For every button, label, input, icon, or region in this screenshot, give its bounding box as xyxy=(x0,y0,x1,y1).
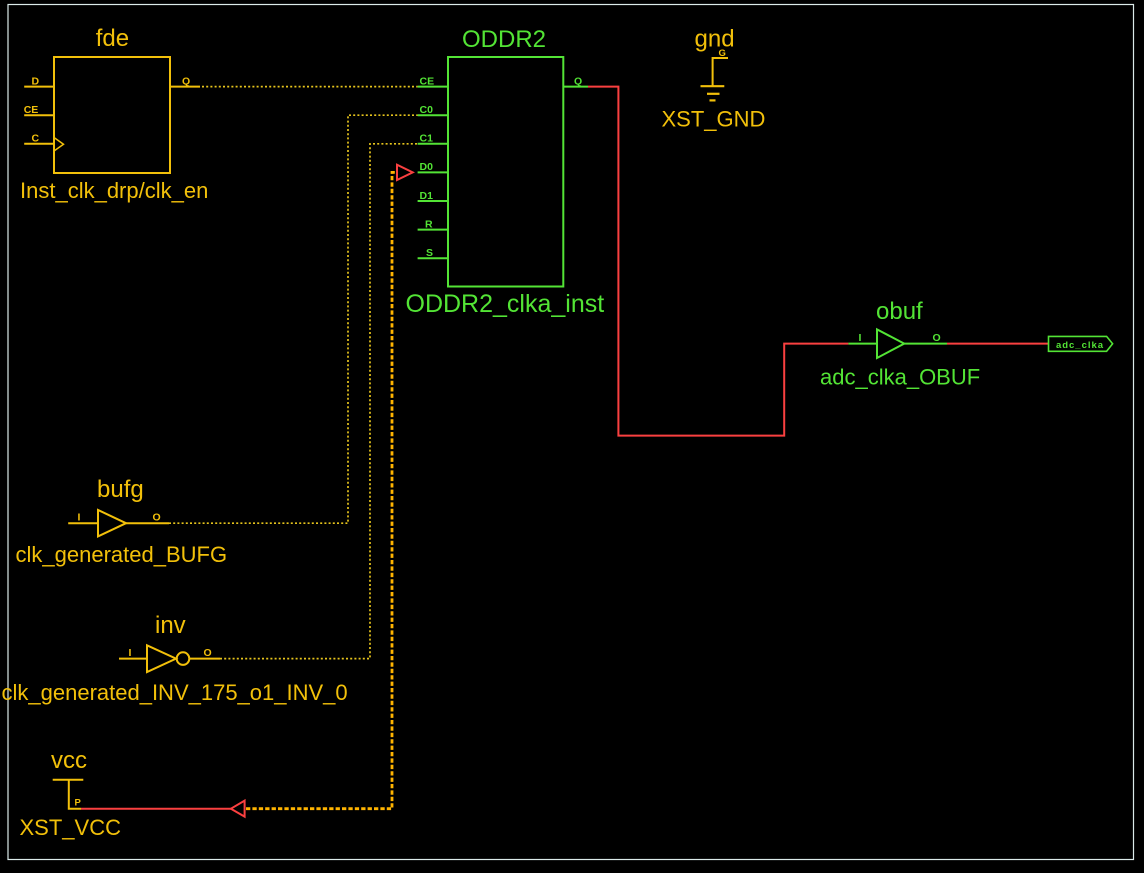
svg-text:I: I xyxy=(859,332,862,344)
fde pin C clock wedge xyxy=(54,138,64,152)
svg-text:inv: inv xyxy=(155,612,186,639)
svg-text:Q: Q xyxy=(574,76,582,88)
red open arrow (right-pointing) into ODDR2.D0 xyxy=(397,165,413,180)
inv pin O xyxy=(190,658,221,660)
ODDR2 pin R xyxy=(418,229,448,231)
svg-text:G: G xyxy=(719,48,726,59)
svg-text:I: I xyxy=(129,647,132,659)
vcc symbol xyxy=(53,779,84,781)
bufg buffer (clk_generated_BUFG) xyxy=(98,510,126,536)
svg-text:bufg: bufg xyxy=(97,476,144,503)
svg-text:P: P xyxy=(75,798,82,809)
svg-text:CE: CE xyxy=(420,76,435,88)
svg-text:CE: CE xyxy=(24,104,39,116)
ODDR2 pin D0 xyxy=(418,171,448,173)
svg-text:adc_clka: adc_clka xyxy=(1056,340,1104,351)
svg-text:O: O xyxy=(153,512,161,524)
ODDR2 pin Q xyxy=(563,86,588,88)
svg-text:ODDR2_clka_inst: ODDR2_clka_inst xyxy=(406,290,605,318)
ODDR2 pin C1 xyxy=(418,143,448,145)
bufg pin O xyxy=(126,522,169,524)
inv bubble xyxy=(177,652,190,665)
red wire net ODDR2.Q to obuf input xyxy=(588,87,848,436)
wire net fde.Q to ODDR2.CE (dotted) xyxy=(202,86,418,88)
wire net vcc to ODDR2.D0 (orange dashed) xyxy=(246,172,397,808)
inv pin I xyxy=(119,658,147,660)
svg-text:XST_VCC: XST_VCC xyxy=(20,815,122,840)
svg-text:R: R xyxy=(425,218,433,230)
obuf pin O xyxy=(904,343,947,345)
ODDR2 pin D1 xyxy=(418,200,448,202)
gnd symbol xyxy=(713,58,728,86)
red open arrow (left-pointing) at vcc net xyxy=(231,801,245,817)
ODDR2 pin C0 xyxy=(418,114,448,116)
fde pin Q xyxy=(170,86,200,88)
svg-text:D: D xyxy=(32,76,40,88)
ODDR2 pin CE xyxy=(418,86,448,88)
fde pin D xyxy=(24,86,54,88)
fde pin CE xyxy=(24,114,54,116)
red wire obuf output to port xyxy=(947,343,1049,345)
svg-text:C: C xyxy=(32,133,40,145)
svg-text:C1: C1 xyxy=(420,133,434,145)
svg-text:adc_clka_OBUF: adc_clka_OBUF xyxy=(820,365,980,390)
inv inverter (clk_generated_INV_175_o1_INV_0) xyxy=(147,645,176,672)
svg-text:I: I xyxy=(78,512,81,524)
svg-text:clk_generated_INV_175_o1_INV_0: clk_generated_INV_175_o1_INV_0 xyxy=(2,680,348,705)
flip-flop U fde (Inst_clk_drp/clk_en) xyxy=(54,57,170,173)
svg-text:Q: Q xyxy=(182,76,190,88)
svg-text:ODDR2: ODDR2 xyxy=(462,26,546,53)
svg-text:S: S xyxy=(426,247,433,259)
red wire from vcc pin P xyxy=(81,808,231,810)
svg-text:D0: D0 xyxy=(420,161,434,173)
svg-text:C0: C0 xyxy=(420,104,434,116)
svg-text:obuf: obuf xyxy=(876,298,923,325)
svg-text:gnd: gnd xyxy=(695,25,735,52)
wire net bufg.O to ODDR2.C0 (dotted) xyxy=(169,115,418,523)
wire net inv.O to ODDR2.C1 (dotted) xyxy=(220,144,418,659)
svg-text:O: O xyxy=(204,647,212,659)
svg-text:clk_generated_BUFG: clk_generated_BUFG xyxy=(16,542,228,567)
obuf pin I xyxy=(848,343,877,345)
output port flag adc_clka xyxy=(1049,336,1113,351)
ODDR2 component box xyxy=(448,57,563,287)
ODDR2 pin S xyxy=(418,257,448,259)
obuf buffer (adc_clka_OBUF) xyxy=(877,329,904,358)
svg-text:vcc: vcc xyxy=(51,747,87,774)
svg-text:fde: fde xyxy=(96,25,129,52)
svg-text:Inst_clk_drp/clk_en: Inst_clk_drp/clk_en xyxy=(20,178,208,203)
svg-text:O: O xyxy=(933,332,941,344)
bufg pin I xyxy=(68,522,98,524)
svg-text:XST_GND: XST_GND xyxy=(662,107,766,132)
svg-text:D1: D1 xyxy=(420,190,434,202)
